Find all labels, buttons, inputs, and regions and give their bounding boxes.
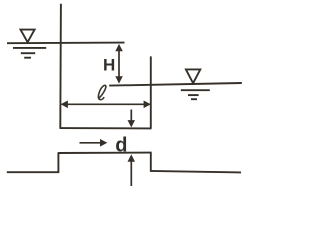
sill right face bbox=[150, 153, 152, 172]
gate right wall bbox=[150, 56, 152, 128]
downstream surface hash dash 2 bbox=[188, 94, 199, 96]
downstream channel floor bbox=[150, 171, 241, 173]
downstream free-surface symbol triangle bbox=[186, 69, 200, 83]
downstream surface hash dash 3 bbox=[191, 98, 197, 100]
flow direction arrow bbox=[80, 139, 108, 147]
gate left wall bbox=[59, 4, 62, 129]
svg-text:d: d bbox=[115, 134, 127, 156]
downstream water surface line bbox=[109, 83, 242, 86]
upstream surface hash dash 2 bbox=[21, 52, 35, 54]
upstream water surface line bbox=[7, 42, 125, 45]
downstream surface hash dash 1 bbox=[181, 89, 210, 91]
svg-text:H: H bbox=[103, 55, 115, 74]
label script ell bbox=[98, 85, 106, 99]
dimension H arrow (double-headed vertical) bbox=[115, 44, 123, 84]
gap lower reference arrow (points up to sill crest) bbox=[128, 154, 136, 186]
upstream surface hash dash 3 bbox=[24, 57, 31, 59]
dimension l arrow (double-headed horizontal) bbox=[61, 101, 151, 109]
upstream surface hash dash 1 bbox=[13, 47, 46, 49]
gate bottom bbox=[60, 127, 152, 129]
upstream channel floor bbox=[7, 171, 59, 173]
sill left face bbox=[57, 152, 59, 172]
sill crest line bbox=[58, 152, 151, 154]
upstream free-surface symbol triangle bbox=[21, 30, 35, 43]
gap upper reference arrow (points down to gate bottom) bbox=[128, 110, 136, 128]
